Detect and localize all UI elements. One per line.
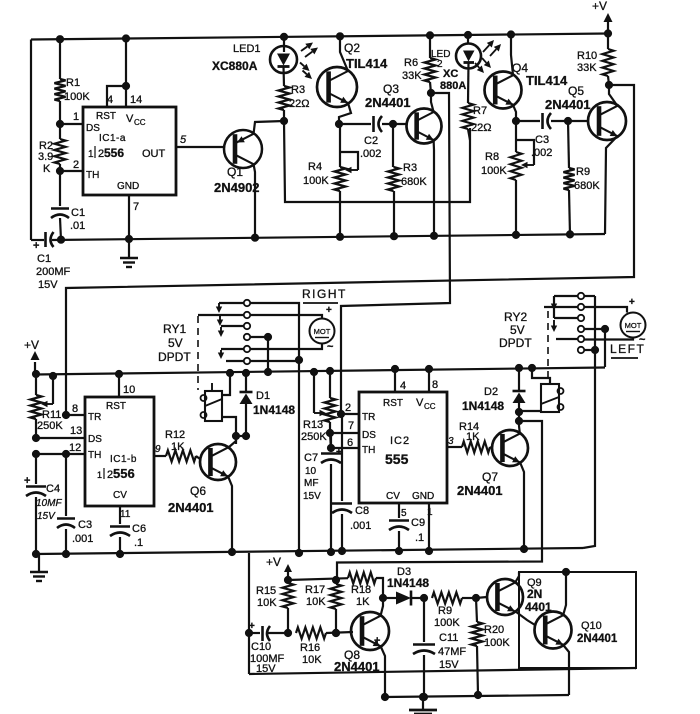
motor LEFT bbox=[621, 313, 646, 338]
wire Q8 emitter bbox=[381, 646, 389, 701]
relay RY2 contact 1 bbox=[554, 293, 584, 299]
wire Q7 collector bbox=[518, 421, 521, 434]
svg-text:OUT: OUT bbox=[142, 148, 166, 160]
svg-text:Q10: Q10 bbox=[581, 620, 602, 632]
svg-text:15V: 15V bbox=[37, 511, 56, 522]
svg-text:LED1: LED1 bbox=[233, 43, 261, 55]
wire +V top rail bbox=[31, 34, 608, 241]
wire RY1 coil to +V bbox=[222, 369, 234, 395]
svg-text:250K: 250K bbox=[37, 420, 63, 432]
svg-text:XC880A: XC880A bbox=[212, 59, 258, 73]
timer U IC2 555 box bbox=[359, 392, 447, 503]
node R11 DS junction bbox=[32, 434, 39, 441]
wire Q9 collector bbox=[515, 572, 519, 583]
op-amp U IC1-a 556 box bbox=[83, 107, 176, 195]
svg-text:15V: 15V bbox=[439, 659, 459, 671]
relay RY2 contact 5 bbox=[556, 336, 584, 342]
resistor R18 1K bbox=[348, 572, 387, 608]
svg-text:C9: C9 bbox=[411, 517, 425, 529]
capacitor C8 .001 bbox=[332, 414, 371, 555]
svg-text:C10: C10 bbox=[251, 641, 271, 653]
svg-text:+: + bbox=[629, 297, 635, 308]
svg-text:1K: 1K bbox=[356, 596, 370, 608]
pin 2 wire bbox=[60, 159, 83, 171]
svg-text:100K: 100K bbox=[64, 91, 90, 103]
svg-text:V: V bbox=[126, 113, 134, 125]
svg-text:9: 9 bbox=[155, 444, 161, 455]
wire D1 node link bbox=[236, 435, 246, 437]
wire RY1 coil to D1 bbox=[222, 417, 240, 440]
svg-text:15V: 15V bbox=[256, 663, 276, 675]
pin 3 wire IC2 bbox=[447, 436, 462, 447]
relay RY2 contact 6 bbox=[578, 347, 595, 353]
wire Q10 collector bbox=[562, 568, 569, 615]
light arrows into Q4 bbox=[475, 58, 491, 73]
svg-text:MF: MF bbox=[304, 478, 318, 489]
relay RY1 contact 3 bbox=[218, 323, 250, 337]
svg-text:R20: R20 bbox=[484, 624, 504, 636]
resistor R16 10K bbox=[296, 627, 353, 666]
wire Q5 collector bbox=[605, 81, 617, 106]
relay RY2 contact 3 bbox=[554, 315, 584, 321]
svg-text:R16: R16 bbox=[300, 642, 320, 654]
svg-text:2: 2 bbox=[345, 402, 351, 414]
capacitor C7 10MF 15V bbox=[303, 433, 342, 556]
transistor Q5 2N4401 bbox=[545, 84, 626, 140]
resistor R11 250K pot bbox=[30, 370, 63, 438]
svg-text:15V: 15V bbox=[38, 279, 58, 291]
svg-text:7: 7 bbox=[133, 201, 139, 213]
wire RY2 coil to +V bbox=[528, 364, 550, 384]
svg-text:555: 555 bbox=[385, 451, 409, 467]
capacitor C11 47MF 15V bbox=[374, 598, 466, 701]
svg-text:C1: C1 bbox=[71, 207, 85, 219]
svg-text:+: + bbox=[374, 635, 380, 647]
svg-text:10: 10 bbox=[123, 384, 135, 396]
ground bottom bbox=[409, 693, 437, 714]
power +V mid left bbox=[24, 338, 40, 374]
svg-text:R8: R8 bbox=[485, 151, 499, 163]
svg-text:3.9: 3.9 bbox=[38, 151, 53, 163]
svg-text:LEFT: LEFT bbox=[610, 342, 645, 356]
svg-text:1N4148: 1N4148 bbox=[462, 399, 504, 413]
wire gnd rail top section bbox=[31, 234, 605, 240]
svg-text:IC1-b: IC1-b bbox=[110, 454, 137, 465]
svg-text:5V: 5V bbox=[510, 323, 525, 337]
diode D2 1N4148 bbox=[462, 364, 526, 424]
svg-text:R6: R6 bbox=[404, 57, 418, 69]
wire RIGHT motor plus bbox=[250, 305, 332, 319]
transistor Q1 2N4902 bbox=[214, 130, 262, 195]
pin 11 wire bbox=[120, 506, 131, 524]
svg-text:5: 5 bbox=[180, 134, 187, 146]
svg-text:1K: 1K bbox=[466, 431, 480, 443]
light arrows from LED1 bbox=[301, 43, 318, 58]
svg-text:C3: C3 bbox=[78, 519, 92, 531]
resistor R6 33K bbox=[402, 32, 436, 93]
svg-text:TIL414: TIL414 bbox=[346, 56, 388, 71]
wire Q1 collector bbox=[251, 164, 258, 241]
wire D1 node to Q6 collector bbox=[235, 436, 237, 444]
relay RY2 contact 4 bbox=[578, 326, 605, 332]
resistor R3 22ohm bbox=[278, 84, 309, 125]
wire Q1 emitter bbox=[254, 121, 285, 134]
svg-text:100K: 100K bbox=[481, 165, 507, 177]
wire Q7 emitter bbox=[520, 462, 528, 553]
node R11 TH junction bbox=[32, 450, 39, 457]
pin 6 wire IC2 bbox=[327, 437, 359, 452]
svg-text:RST: RST bbox=[96, 111, 116, 122]
wire Q4 emitter bbox=[512, 105, 519, 125]
svg-text:DPDT: DPDT bbox=[499, 336, 532, 350]
wire Q10 emitter bbox=[563, 645, 569, 695]
svg-text:MOT: MOT bbox=[625, 321, 642, 330]
label LEFT bbox=[610, 342, 645, 358]
wire Q9 base bbox=[476, 597, 487, 598]
svg-text:DPDT: DPDT bbox=[158, 350, 191, 364]
node Q2 emitter junction bbox=[335, 120, 342, 127]
svg-text:+: + bbox=[24, 475, 30, 487]
svg-text:22Ω: 22Ω bbox=[471, 122, 491, 134]
svg-text:.002: .002 bbox=[360, 148, 381, 160]
svg-text:556: 556 bbox=[113, 466, 135, 481]
svg-text:10K: 10K bbox=[302, 654, 322, 666]
svg-text:15V: 15V bbox=[303, 491, 321, 502]
op-amp U IC1-b 556 box bbox=[85, 397, 154, 506]
label RY1 5V DPDT bbox=[158, 322, 191, 364]
svg-text:TH: TH bbox=[86, 170, 99, 181]
svg-text:D1: D1 bbox=[256, 390, 270, 402]
resistor R4 100K pot bbox=[303, 124, 358, 240]
wire Q3 emitter bbox=[430, 140, 437, 239]
svg-text:7: 7 bbox=[348, 420, 354, 432]
svg-text:2N4902: 2N4902 bbox=[214, 180, 260, 195]
svg-text:6: 6 bbox=[347, 437, 353, 449]
svg-text:33K: 33K bbox=[402, 70, 422, 82]
relay RY2 actuator dashed link bbox=[547, 311, 549, 382]
pin 10 wire bbox=[115, 370, 135, 397]
pin 5 wire IC2 bbox=[399, 503, 407, 519]
svg-text:C3: C3 bbox=[535, 134, 549, 146]
wire bottom emitter gnd line bbox=[385, 695, 569, 697]
wire RY1 NO2 to +V bbox=[264, 333, 271, 375]
light arrows into Q2 bbox=[300, 63, 312, 80]
node TH pin2 junction bbox=[56, 167, 63, 174]
svg-text:CC: CC bbox=[134, 118, 146, 127]
relay RY1 contact 6 bbox=[226, 358, 250, 364]
svg-text:TR: TR bbox=[362, 412, 375, 423]
svg-text:+V: +V bbox=[266, 555, 281, 569]
wire Q6 emitter bbox=[228, 476, 236, 556]
LED LED2 XC880A bbox=[431, 31, 481, 103]
wire LEFT motor minus bbox=[584, 334, 646, 346]
svg-text:C6: C6 bbox=[132, 523, 146, 535]
svg-text:R18: R18 bbox=[351, 584, 371, 596]
svg-text:12: 12 bbox=[69, 442, 81, 454]
svg-text:GND: GND bbox=[117, 181, 139, 192]
pin 1 wire bbox=[60, 111, 83, 124]
capacitor C1 .01 bbox=[51, 171, 85, 243]
LED LED1 XC880A bbox=[212, 33, 297, 86]
pin 4 wire IC2 bbox=[391, 365, 406, 392]
svg-text:2N4401: 2N4401 bbox=[365, 95, 411, 110]
wire RY1 pole2 row6 bbox=[250, 360, 299, 362]
svg-text:556: 556 bbox=[104, 146, 124, 160]
svg-text:C7: C7 bbox=[304, 452, 318, 464]
svg-text:22Ω: 22Ω bbox=[289, 98, 309, 110]
svg-text:11: 11 bbox=[120, 509, 131, 520]
svg-text:CV: CV bbox=[386, 491, 400, 502]
wire +V mid rail bbox=[35, 368, 605, 375]
svg-text:47MF: 47MF bbox=[438, 646, 466, 658]
motor RIGHT bbox=[310, 319, 335, 344]
relay RY2 coil bbox=[541, 384, 564, 412]
transistor Q7 2N4401 bbox=[457, 430, 528, 498]
svg-text:3: 3 bbox=[448, 436, 454, 447]
svg-text:100K: 100K bbox=[484, 637, 510, 649]
svg-text:R13: R13 bbox=[303, 419, 323, 431]
transistor Q9 2N4401 bbox=[487, 577, 552, 615]
relay RY1 actuator dashed link bbox=[197, 316, 199, 390]
pin 8 wire bbox=[62, 403, 85, 419]
svg-text:TH: TH bbox=[362, 445, 375, 456]
svg-text:880A: 880A bbox=[440, 80, 466, 92]
svg-text:C11: C11 bbox=[439, 632, 458, 644]
wire bottom box bottom edge bbox=[249, 668, 636, 674]
svg-text:RST: RST bbox=[383, 398, 403, 409]
svg-text:10K: 10K bbox=[306, 596, 326, 608]
diode D1 1N4148 bbox=[240, 369, 296, 439]
svg-text:V: V bbox=[416, 397, 424, 409]
light arrows from LED2 bbox=[483, 40, 501, 56]
svg-text:2N: 2N bbox=[527, 587, 542, 601]
svg-text:C2: C2 bbox=[364, 135, 378, 147]
svg-text:250K: 250K bbox=[301, 431, 327, 443]
svg-text:2N4401: 2N4401 bbox=[168, 500, 214, 515]
svg-text:2N4401: 2N4401 bbox=[334, 659, 380, 674]
svg-text:R9: R9 bbox=[438, 605, 452, 617]
svg-text:1: 1 bbox=[73, 111, 79, 123]
wire LEFT motor plus bbox=[584, 297, 635, 313]
svg-text:RY2: RY2 bbox=[504, 310, 527, 324]
svg-text:13: 13 bbox=[70, 425, 82, 437]
svg-text:Q1: Q1 bbox=[227, 165, 243, 179]
wire DS TH tie bbox=[330, 433, 332, 448]
svg-text:MOT: MOT bbox=[314, 327, 331, 336]
svg-text:~: ~ bbox=[327, 341, 334, 353]
svg-text:+: + bbox=[249, 621, 255, 632]
wire C2 left bbox=[339, 123, 371, 125]
relay RY1 contact 2 bbox=[198, 312, 250, 326]
svg-text:.001: .001 bbox=[72, 533, 93, 545]
svg-text:R3: R3 bbox=[403, 162, 417, 174]
svg-text:IC2: IC2 bbox=[390, 435, 410, 447]
svg-text:Q5: Q5 bbox=[568, 84, 584, 98]
svg-text:R3: R3 bbox=[291, 84, 305, 96]
resistor R5 680K bbox=[388, 124, 427, 240]
wire Q6 collector bbox=[228, 436, 236, 448]
capacitor C10 100MF 15V bbox=[245, 621, 288, 675]
wire RY2 NC bracket bbox=[551, 296, 557, 332]
svg-text:D2: D2 bbox=[484, 386, 498, 398]
svg-text:DS: DS bbox=[362, 430, 376, 441]
wire Q1 emitter node to R7 return bbox=[284, 121, 470, 202]
pin 7 wire IC2 bbox=[330, 420, 359, 433]
svg-text:TR: TR bbox=[88, 412, 101, 423]
pin 8 wire IC2 bbox=[425, 365, 438, 392]
resistor R9 680K bbox=[563, 121, 600, 238]
wire RY1 NO1 cross link bbox=[250, 303, 302, 557]
ground bbox=[120, 239, 138, 267]
resistor R7 22ohm bbox=[462, 103, 491, 140]
svg-text:R9: R9 bbox=[576, 166, 590, 178]
svg-text:+V: +V bbox=[592, 0, 607, 13]
resistor R1 100K bbox=[54, 36, 90, 124]
pin 13 wire bbox=[36, 425, 85, 438]
wire Q8 collector bbox=[381, 598, 384, 616]
capacitor C9 .1 bbox=[389, 517, 425, 555]
transistor Q6 2N4401 bbox=[168, 444, 236, 515]
wire Q9 emitter to Q10 base bbox=[515, 611, 535, 625]
svg-text:.1: .1 bbox=[415, 532, 424, 544]
pin 5 wire bbox=[176, 134, 224, 147]
svg-text:CC: CC bbox=[424, 402, 436, 411]
pin 2 wire IC2 bbox=[337, 402, 359, 418]
pin 4 wire bbox=[107, 35, 142, 107]
resistor R17 10K bbox=[305, 576, 342, 636]
resistor R12 1K bbox=[165, 429, 200, 462]
wire Q2 emitter bbox=[339, 103, 351, 124]
svg-text:1K: 1K bbox=[171, 441, 185, 453]
svg-text:2N4401: 2N4401 bbox=[545, 97, 591, 112]
svg-text:1: 1 bbox=[427, 507, 433, 518]
capacitor C6 .1 bbox=[110, 523, 146, 558]
wire D2 node down bbox=[337, 412, 542, 578]
svg-text:XC: XC bbox=[443, 68, 458, 80]
svg-text:Q3: Q3 bbox=[383, 82, 399, 96]
svg-text:R1: R1 bbox=[66, 77, 80, 89]
svg-text:+: + bbox=[326, 305, 332, 316]
svg-text:10: 10 bbox=[305, 466, 317, 477]
svg-text:C1: C1 bbox=[37, 253, 51, 265]
ground left bbox=[30, 554, 48, 581]
svg-text:5V: 5V bbox=[168, 336, 183, 350]
wire RIGHT motor minus bbox=[250, 341, 334, 353]
wire C2 right bbox=[382, 120, 407, 127]
svg-text:R10: R10 bbox=[577, 50, 597, 62]
svg-text:5: 5 bbox=[401, 508, 407, 519]
resistor R2 3.9K bbox=[38, 124, 66, 175]
diode D3 1N4148 bbox=[383, 566, 429, 606]
capacitor C4 10MF 15V bbox=[24, 454, 62, 558]
label RIGHT bbox=[302, 287, 347, 303]
pin 1 wire IC2 bbox=[425, 503, 433, 555]
wire RY2 r6 to gnd bbox=[583, 296, 599, 548]
wire gnd rail middle bbox=[36, 548, 583, 554]
svg-text:4: 4 bbox=[107, 94, 113, 106]
label RY2 5V DPDT bbox=[499, 310, 532, 350]
resistor R15 10K bbox=[256, 583, 294, 637]
svg-text:Q6: Q6 bbox=[190, 484, 206, 498]
wire bottom box left edge bbox=[248, 553, 250, 674]
wire RY2 NO2 to +V bbox=[601, 325, 608, 367]
node DS pin1 junction bbox=[56, 120, 63, 127]
resistor R9 100K bbox=[432, 592, 480, 629]
svg-text:33K: 33K bbox=[577, 62, 597, 74]
svg-text:1N4148: 1N4148 bbox=[387, 576, 429, 590]
power +V top right bbox=[592, 0, 613, 34]
relay RY1 coil bbox=[201, 383, 223, 421]
svg-text:IC1-a: IC1-a bbox=[99, 133, 126, 144]
svg-text:2N4401: 2N4401 bbox=[457, 483, 503, 498]
resistor R20 100K bbox=[471, 598, 510, 699]
wire RY2 coil to D2 bbox=[519, 410, 541, 412]
power +V bottom bbox=[266, 555, 292, 584]
svg-text:R15: R15 bbox=[256, 585, 276, 597]
svg-text:C8: C8 bbox=[355, 505, 369, 517]
phototransistor Q4 TIL414 bbox=[485, 31, 568, 109]
relay RY1 contact 4 bbox=[244, 334, 268, 340]
transistor Q10 2N4401 bbox=[535, 612, 618, 649]
pin 9 wire bbox=[154, 444, 166, 456]
wire C3 right bbox=[551, 117, 588, 124]
svg-text:100K: 100K bbox=[434, 617, 460, 629]
svg-text:1N4148: 1N4148 bbox=[253, 403, 295, 417]
svg-text:GND: GND bbox=[412, 491, 434, 502]
svg-text:TH: TH bbox=[88, 450, 101, 461]
svg-text:2: 2 bbox=[73, 159, 79, 171]
svg-text:14: 14 bbox=[130, 94, 142, 106]
svg-text:RIGHT: RIGHT bbox=[302, 287, 347, 301]
capacitor C1 200MF 15V bbox=[33, 232, 71, 291]
capacitor C3 .001 bbox=[57, 450, 93, 557]
svg-text:680K: 680K bbox=[574, 180, 600, 192]
svg-text:8: 8 bbox=[72, 403, 78, 415]
svg-text:.01: .01 bbox=[70, 220, 85, 232]
svg-text:+V: +V bbox=[24, 338, 39, 352]
svg-text:2N4401: 2N4401 bbox=[577, 633, 618, 645]
relay RY1 contact 5 bbox=[218, 346, 250, 359]
svg-text:+: + bbox=[33, 240, 39, 252]
relay RY2 contact 2 bbox=[544, 304, 584, 310]
svg-text:R17: R17 bbox=[305, 584, 325, 596]
capacitor C3 .002 bbox=[531, 113, 552, 159]
svg-text:RY1: RY1 bbox=[163, 322, 186, 336]
svg-text:R12: R12 bbox=[165, 429, 185, 441]
svg-text:R7: R7 bbox=[473, 105, 487, 117]
wire Q9 Q10 collector loop bbox=[519, 572, 636, 668]
pin 7 wire bbox=[125, 195, 139, 243]
capacitor C2 .002 bbox=[360, 116, 382, 160]
svg-text:C4: C4 bbox=[46, 483, 60, 495]
svg-text:1: 1 bbox=[97, 470, 102, 480]
svg-text:Q7: Q7 bbox=[482, 470, 498, 484]
svg-text:.1: .1 bbox=[134, 537, 143, 549]
svg-text:RST: RST bbox=[106, 401, 126, 412]
svg-text:Q2: Q2 bbox=[344, 41, 360, 55]
relay RY1 contact 1 bbox=[216, 300, 250, 313]
wire Q3 collector bbox=[427, 89, 434, 112]
svg-text:K: K bbox=[43, 163, 51, 175]
wire C3 left bbox=[516, 120, 540, 122]
wire bottom +V feed line bbox=[288, 578, 348, 580]
svg-text:R4: R4 bbox=[308, 161, 322, 173]
svg-text:4: 4 bbox=[400, 380, 406, 392]
svg-text:8: 8 bbox=[432, 379, 438, 391]
wire Q5 output run bbox=[66, 85, 634, 415]
svg-text:10MF: 10MF bbox=[36, 498, 62, 509]
svg-text:100K: 100K bbox=[303, 175, 329, 187]
